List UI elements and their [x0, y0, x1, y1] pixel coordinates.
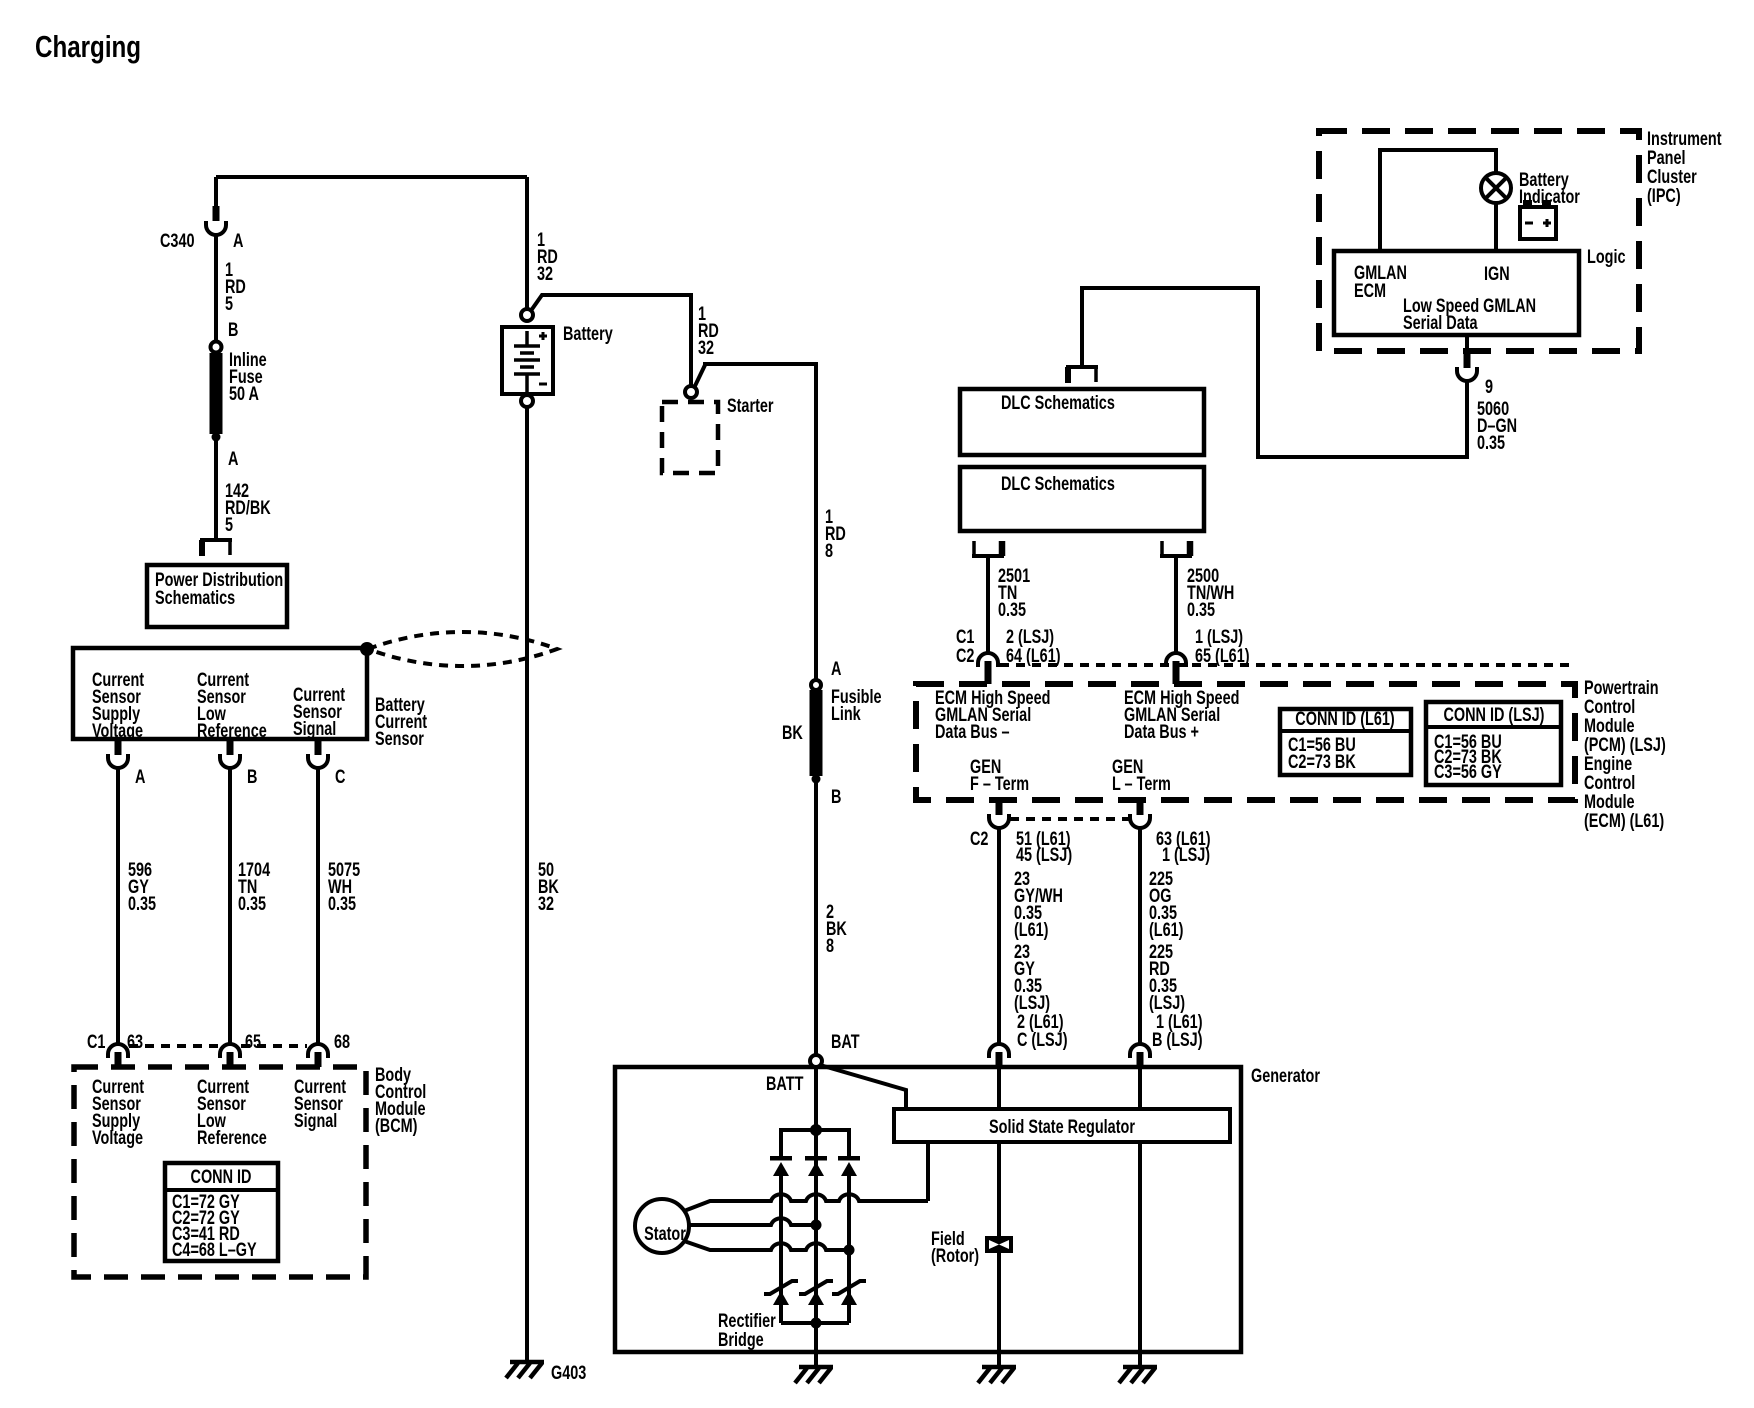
svg-text:0.35: 0.35: [238, 893, 266, 914]
svg-text:Battery: Battery: [563, 323, 613, 344]
svg-text:C2: C2: [970, 828, 988, 849]
svg-text:Data Bus –: Data Bus –: [935, 721, 1010, 742]
svg-text:C2: C2: [956, 645, 974, 666]
svg-text:Charging: Charging: [35, 29, 141, 64]
svg-text:0.35: 0.35: [328, 893, 356, 914]
svg-text:50 A: 50 A: [229, 383, 259, 404]
svg-text:C3=56 GY: C3=56 GY: [1434, 761, 1502, 782]
svg-text:BATT: BATT: [766, 1073, 804, 1094]
svg-text:0.35: 0.35: [998, 599, 1026, 620]
svg-text:B: B: [228, 319, 238, 340]
svg-text:32: 32: [538, 893, 554, 914]
svg-text:0.35: 0.35: [1477, 432, 1505, 453]
svg-text:A: A: [233, 230, 243, 251]
svg-text:Stator: Stator: [644, 1223, 686, 1244]
svg-text:0.35: 0.35: [128, 893, 156, 914]
svg-text:Reference: Reference: [197, 720, 267, 741]
svg-text:CONN ID (LSJ): CONN ID (LSJ): [1443, 704, 1544, 725]
svg-text:B: B: [831, 786, 841, 807]
svg-text:Sensor: Sensor: [375, 728, 424, 749]
svg-text:A: A: [135, 766, 145, 787]
svg-text:C: C: [335, 766, 345, 787]
svg-text:Bridge: Bridge: [718, 1329, 764, 1350]
svg-text:32: 32: [537, 263, 553, 284]
svg-text:C1: C1: [87, 1031, 105, 1052]
svg-text:Signal: Signal: [294, 1110, 337, 1131]
svg-text:Voltage: Voltage: [92, 1127, 143, 1148]
svg-text:ECM: ECM: [1354, 280, 1386, 301]
svg-text:C4=68 L–GY: C4=68 L–GY: [172, 1239, 257, 1260]
svg-text:C2=73 BK: C2=73 BK: [1288, 751, 1356, 772]
svg-text:9: 9: [1485, 376, 1493, 397]
svg-text:A: A: [228, 448, 238, 469]
svg-text:32: 32: [698, 337, 714, 358]
svg-text:5: 5: [225, 293, 233, 314]
svg-text:8: 8: [825, 540, 833, 561]
svg-text:CONN ID (L61): CONN ID (L61): [1295, 708, 1394, 729]
svg-text:68: 68: [334, 1031, 350, 1052]
svg-text:C (LSJ): C (LSJ): [1017, 1029, 1068, 1050]
svg-text:(L61): (L61): [1014, 919, 1048, 940]
svg-text:Serial Data: Serial Data: [1403, 312, 1478, 333]
svg-text:Reference: Reference: [197, 1127, 267, 1148]
svg-text:F – Term: F – Term: [970, 773, 1029, 794]
svg-text:45 (LSJ): 45 (LSJ): [1016, 844, 1072, 865]
svg-text:C340: C340: [160, 230, 194, 251]
svg-text:CONN ID: CONN ID: [191, 1166, 252, 1187]
svg-text:Solid State Regulator: Solid State Regulator: [989, 1116, 1135, 1137]
svg-text:1 (LSJ): 1 (LSJ): [1162, 844, 1210, 865]
svg-text:L – Term: L – Term: [1112, 773, 1171, 794]
svg-text:Schematics: Schematics: [155, 587, 235, 608]
svg-text:(IPC): (IPC): [1647, 185, 1681, 206]
svg-text:A: A: [831, 658, 841, 679]
svg-text:Signal: Signal: [293, 718, 336, 739]
svg-text:(BCM): (BCM): [375, 1115, 417, 1136]
svg-text:IGN: IGN: [1484, 263, 1510, 284]
svg-text:Data Bus +: Data Bus +: [1124, 721, 1199, 742]
svg-text:5: 5: [225, 514, 233, 535]
svg-text:G403: G403: [551, 1362, 586, 1383]
svg-text:B: B: [247, 766, 257, 787]
svg-text:Starter: Starter: [727, 395, 774, 416]
svg-text:(Rotor): (Rotor): [931, 1245, 979, 1266]
svg-text:8: 8: [826, 935, 834, 956]
svg-text:63: 63: [127, 1031, 143, 1052]
svg-text:Link: Link: [831, 703, 861, 724]
svg-text:65: 65: [245, 1031, 261, 1052]
svg-text:B (LSJ): B (LSJ): [1152, 1029, 1203, 1050]
svg-text:Voltage: Voltage: [92, 720, 143, 741]
svg-text:Logic: Logic: [1587, 246, 1625, 267]
svg-text:0.35: 0.35: [1187, 599, 1215, 620]
svg-text:(ECM) (L61): (ECM) (L61): [1584, 810, 1664, 831]
svg-text:BAT: BAT: [831, 1031, 860, 1052]
svg-text:(L61): (L61): [1149, 919, 1183, 940]
svg-text:BK: BK: [782, 722, 804, 743]
svg-text:DLC Schematics: DLC Schematics: [1001, 392, 1115, 413]
svg-text:DLC Schematics: DLC Schematics: [1001, 473, 1115, 494]
svg-text:Generator: Generator: [1251, 1065, 1320, 1086]
